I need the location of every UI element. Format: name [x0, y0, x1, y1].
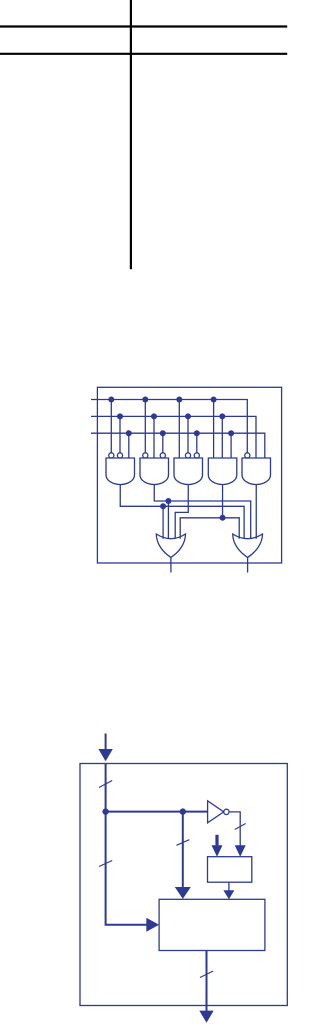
node row3/A1	[126, 430, 132, 436]
wire row2 to gate A1	[119, 416, 121, 452]
bus-width tick (inverter output)	[235, 824, 246, 830]
node row1/A1	[108, 397, 114, 403]
node row2/A2	[151, 413, 157, 419]
bus-width tick (left bus)	[99, 861, 112, 867]
middle bus drop	[182, 812, 184, 887]
arrowhead output bus	[199, 1011, 213, 1023]
block diagram border box	[80, 764, 287, 1006]
bus-width tick (input)	[99, 781, 112, 788]
wire row3 to gate A2	[162, 433, 164, 453]
wire F1 output	[170, 557, 172, 572]
wire A5 output to OR2	[255, 484, 257, 539]
wire row1 to gate A1	[110, 400, 112, 453]
wire register output	[228, 882, 230, 890]
wire input bus inside box	[105, 764, 107, 812]
wire row2 to gate A4	[221, 416, 223, 458]
node A1-out branch	[160, 503, 166, 509]
inverter bubble A2 input3	[160, 453, 165, 458]
node row3/A2	[160, 430, 166, 436]
node row2/A1	[117, 413, 123, 419]
node row1/A3	[176, 397, 182, 403]
bus-width tick (middle bus)	[177, 840, 190, 846]
OR gate O1	[156, 534, 185, 557]
node middle branch	[180, 808, 186, 814]
wire A1 output to OR2	[120, 484, 244, 539]
arrowhead register output into big box	[223, 890, 234, 899]
node row1/A4	[211, 397, 217, 403]
table rule 1 (upper horizontal black line)	[0, 25, 287, 27]
wire A3 output to OR1	[175, 484, 188, 539]
AND gate A1	[106, 458, 135, 485]
inverter bubble A5 input1	[245, 453, 250, 458]
inverter bubble A3 input3	[194, 453, 199, 458]
table rule 2 (lower horizontal black line)	[0, 53, 287, 55]
wire row3 to gate A4	[230, 433, 232, 458]
input line Y (middle row wire)	[91, 416, 256, 458]
node row1/A2	[142, 397, 148, 403]
arrowhead clock into register	[212, 845, 223, 857]
AND gate A4	[208, 458, 237, 485]
horizontal bus to inverter	[106, 811, 208, 813]
node row3/A3	[194, 430, 200, 436]
node row2/A4	[219, 413, 225, 419]
inverter bubble A2 input1	[143, 453, 148, 458]
wire F2 output	[247, 557, 249, 572]
node row2/A3	[185, 413, 191, 419]
inverter bubble A3 input2	[185, 453, 190, 458]
bus-width tick (output)	[200, 971, 213, 978]
clock stub arrow shaft	[215, 835, 218, 846]
output bus	[206, 951, 208, 1012]
wire A2 output to OR2	[154, 484, 250, 539]
circuit border box	[97, 387, 281, 563]
OR gate O2	[233, 534, 263, 557]
arrowhead left bus into big box	[146, 918, 159, 932]
inverter bubble	[224, 809, 229, 814]
wire row2 to gate A3	[187, 416, 189, 452]
node A2-out branch	[165, 498, 171, 504]
AND gate A3	[174, 458, 203, 485]
table column rule (vertical black line)	[130, 0, 132, 269]
combinational circuit box	[159, 899, 265, 950]
inverter G	[208, 801, 224, 823]
wire branch A2 to OR1	[167, 501, 169, 539]
node row3/A4	[228, 430, 234, 436]
AND gate A2	[140, 458, 169, 485]
arrowhead middle bus into big box	[175, 887, 191, 899]
wire branch A1 to OR1	[162, 506, 164, 539]
wire row1 to gate A3	[178, 400, 180, 459]
inverter bubble A1 input2	[117, 453, 122, 458]
wire A4 to OR1 and OR2	[180, 518, 239, 539]
wire row1 to gate A4	[213, 400, 215, 459]
wire row1 to gate A2	[144, 400, 146, 453]
left bus down then right	[106, 812, 147, 925]
input bus shaft (top)	[105, 734, 107, 750]
wire inverter output to register	[229, 812, 240, 846]
node input bus split	[102, 808, 108, 814]
wire A4 output	[222, 484, 224, 518]
wire row3 to gate A1	[128, 433, 130, 458]
register box	[208, 857, 252, 883]
node A4-out branch	[220, 515, 226, 521]
wire row3 to gate A3	[196, 433, 198, 453]
input line Z (bottom row wire)	[91, 433, 265, 458]
arrowhead input bus	[98, 749, 112, 761]
wire row2 to gate A2	[153, 416, 155, 458]
AND gate A5	[242, 458, 271, 485]
arrowhead inverter output into register	[235, 845, 246, 857]
inverter bubble A1 input1	[109, 453, 114, 458]
input line X (top row wire)	[91, 400, 247, 453]
